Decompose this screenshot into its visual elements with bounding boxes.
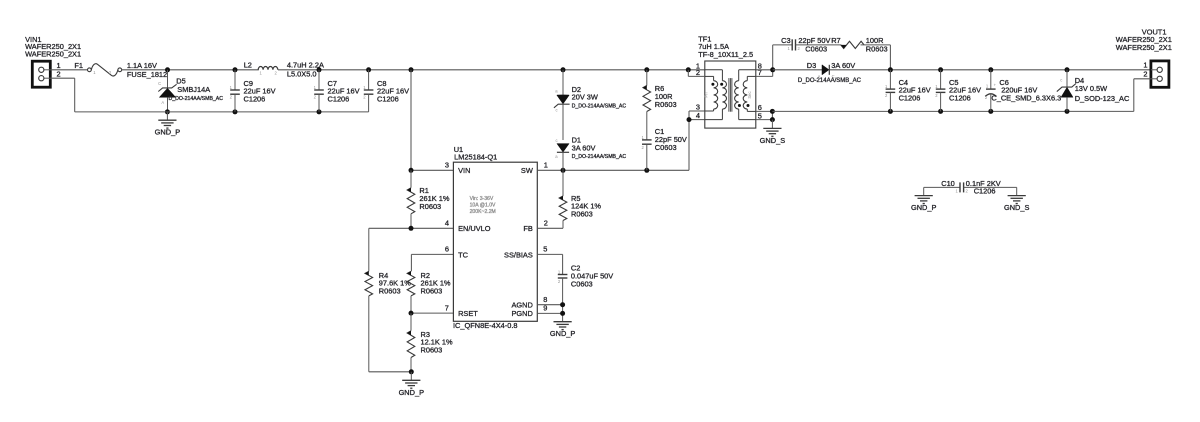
label C5 value — [949, 86, 981, 95]
ground GND_P at D5 — [158, 112, 176, 128]
label C8 — [377, 79, 386, 88]
junction output at C4 — [888, 67, 893, 72]
junction at AGND — [560, 302, 565, 307]
TF1 phase dot secondary outer — [747, 104, 750, 107]
svg-text:c: c — [556, 138, 558, 143]
inductor L2 — [258, 67, 278, 70]
label D5 footprint — [169, 96, 224, 102]
svg-text:C0603: C0603 — [571, 279, 593, 288]
C9 pin1 number — [230, 85, 233, 90]
svg-text:D_DO-214AA/SMB_AC: D_DO-214AA/SMB_AC — [572, 154, 627, 160]
label C4 value — [899, 86, 931, 95]
fuse pin 1 number — [93, 70, 96, 75]
fuse F1 — [88, 64, 122, 76]
svg-text:C1206: C1206 — [949, 94, 971, 103]
diode D3 — [822, 65, 829, 75]
wire R7 to output node — [861, 45, 891, 70]
ground GND_S at TF1 — [763, 120, 781, 137]
label C6 value — [1001, 86, 1037, 95]
label U1 — [454, 145, 463, 154]
TF1 pin number 3 — [696, 103, 700, 112]
label D2 footprint — [572, 104, 627, 110]
label C2 — [571, 264, 580, 273]
label D3 — [807, 61, 816, 70]
label R3 value — [421, 338, 453, 347]
label C1 footprint — [655, 143, 677, 152]
D2 cathode mark — [556, 107, 558, 112]
svg-text:L5.0X5.0: L5.0X5.0 — [287, 69, 317, 78]
junction bottom at D4 — [1065, 109, 1070, 114]
transformer TF1 body — [705, 61, 756, 128]
wire AGND — [537, 304, 562, 306]
C6 plus mark — [994, 83, 997, 88]
label R4 value — [379, 279, 411, 288]
pin number 1 of VIN1 — [57, 61, 61, 70]
label C8 value — [377, 87, 409, 96]
U1 pin number 7 — [445, 303, 449, 312]
C7 pin2 number — [314, 95, 317, 100]
fuse pin 2 number — [109, 70, 112, 75]
label R1 — [419, 186, 428, 195]
svg-text:R0603: R0603 — [421, 287, 443, 296]
connector VIN1 — [32, 61, 50, 87]
D2 anode mark — [555, 89, 558, 94]
wire snubber top — [773, 44, 793, 46]
label L2 footprint — [287, 69, 317, 78]
wire SW — [537, 169, 689, 171]
C4 pin2 number — [885, 93, 888, 98]
junction bottom at C6 — [988, 109, 993, 114]
svg-text:GND_S: GND_S — [760, 136, 786, 145]
diode D2 — [554, 70, 570, 140]
svg-text:PGND: PGND — [511, 309, 532, 318]
svg-text:SS/BIAS: SS/BIAS — [504, 250, 533, 259]
U1 pin number 8 — [543, 295, 547, 304]
capacitor C9 — [230, 70, 240, 112]
ground GND_S at C10 — [1008, 187, 1026, 203]
svg-text:2: 2 — [696, 68, 700, 77]
svg-text:3: 3 — [445, 161, 449, 170]
svg-text:VIN: VIN — [458, 166, 470, 175]
wire C3 to R7 — [796, 44, 842, 46]
wire TF1 pin8 to D3 — [773, 69, 822, 71]
junction at TF pin4 — [687, 117, 692, 122]
svg-text:1: 1 — [57, 61, 61, 70]
label F1 value — [127, 61, 157, 70]
svg-text:C1206: C1206 — [328, 94, 350, 103]
label GND_P at D5 — [155, 128, 181, 137]
svg-text:SW: SW — [521, 166, 533, 175]
label R6 value — [655, 92, 673, 101]
C6 pin1 number — [986, 84, 989, 89]
label C5 — [949, 78, 958, 87]
svg-text:D_DO-214AA/SMB_AC: D_DO-214AA/SMB_AC — [169, 96, 224, 102]
wire PGND — [537, 312, 562, 314]
U1 pin number 9 — [543, 303, 547, 312]
diode D5 — [158, 70, 176, 112]
svg-text:GND_P: GND_P — [550, 329, 576, 338]
svg-text:7: 7 — [445, 303, 449, 312]
TF1 pin number 1 — [696, 61, 700, 70]
label GND_P at C10 — [911, 203, 937, 212]
TF1 primary winding outer — [714, 81, 718, 109]
svg-text:FUSE_1812: FUSE_1812 — [127, 70, 167, 79]
label GND_S at C10 — [1004, 203, 1030, 212]
U1 pin number 2 — [544, 219, 548, 228]
capacitor C8 — [364, 70, 374, 112]
label R2 — [421, 271, 430, 280]
label GND_P at U1 — [550, 329, 576, 338]
svg-text:GND_P: GND_P — [399, 388, 425, 397]
label C7 value — [328, 87, 360, 96]
label GND_S at TF1 — [760, 136, 786, 145]
TF1 secondary winding outer — [743, 81, 747, 109]
junction at EN — [409, 226, 414, 231]
label C2 value — [571, 272, 613, 281]
junction at VIN riser — [409, 67, 414, 72]
U1 pin name EN/UVLO — [458, 224, 491, 233]
label C7 — [328, 79, 337, 88]
label C6 footprint — [991, 94, 1061, 103]
junction at VIN pin — [409, 168, 414, 173]
svg-text:C0603: C0603 — [805, 45, 827, 54]
svg-text:1: 1 — [1143, 61, 1147, 70]
C10 pin1 number — [955, 188, 958, 193]
label D5 value — [177, 85, 210, 94]
svg-text:2: 2 — [544, 219, 548, 228]
svg-text:R0603: R0603 — [866, 45, 888, 54]
svg-text:10A @1.0V: 10A @1.0V — [470, 203, 496, 209]
svg-text:2: 2 — [1143, 70, 1147, 79]
svg-text:R0603: R0603 — [419, 202, 441, 211]
label C10 footprint — [974, 186, 996, 195]
diode D4 — [1057, 70, 1076, 112]
D5 anode mark — [161, 100, 164, 105]
svg-text:IC_QFN8E-4X4-0.8: IC_QFN8E-4X4-0.8 — [453, 321, 518, 330]
label R7 footprint — [866, 45, 888, 54]
svg-text:5: 5 — [543, 245, 547, 254]
D3 cathode mark — [832, 74, 835, 79]
svg-text:LM25184-Q1: LM25184-Q1 — [454, 153, 497, 162]
junction at D5 top — [165, 67, 170, 72]
C6 pin2 number — [985, 95, 988, 100]
label R5 footprint — [571, 210, 593, 219]
diode D1 — [557, 144, 569, 171]
TF1 phase dot primary inner — [720, 83, 723, 86]
L2 pin1 number — [260, 71, 263, 76]
U1 pin name PGND — [511, 309, 532, 318]
label C9 — [244, 79, 253, 88]
C4 pin1 number — [885, 84, 888, 89]
label C4 footprint — [899, 94, 921, 103]
svg-text:R0603: R0603 — [571, 210, 593, 219]
label U1 part — [454, 153, 497, 162]
junction at C9 top — [233, 67, 238, 72]
ground GND_P at R3 — [402, 372, 420, 388]
resistor R7 — [841, 41, 864, 48]
capacitor C10 — [960, 182, 964, 192]
label D2 value — [572, 93, 598, 102]
D1 cathode mark — [556, 138, 558, 143]
svg-text:C: C — [158, 81, 161, 86]
resistor R5 — [559, 170, 567, 228]
junction at R3 ground — [409, 369, 414, 374]
svg-text:FB: FB — [523, 224, 533, 233]
resistor R2 — [407, 271, 415, 313]
capacitor C4 — [886, 70, 896, 112]
label L2 value — [287, 60, 324, 69]
U1 pin name FB — [523, 224, 533, 233]
label R5 — [571, 194, 580, 203]
connector VOUT1 — [1151, 61, 1169, 87]
svg-text:R0603: R0603 — [421, 345, 443, 354]
label R2 value — [421, 279, 451, 288]
label R5 value — [571, 202, 601, 211]
svg-text:C1206: C1206 — [899, 94, 921, 103]
junction at R6 top — [644, 67, 649, 72]
label R4 footprint — [379, 287, 401, 296]
wire VOUT1 pin2 — [1134, 79, 1151, 112]
U1 pin number 4 — [445, 219, 449, 228]
label R3 — [421, 330, 430, 339]
svg-text:13V 0.5W: 13V 0.5W — [1075, 84, 1107, 93]
U1 pin number 5 — [543, 245, 547, 254]
svg-text:GND_P: GND_P — [911, 203, 937, 212]
capacitor C1 — [642, 140, 652, 170]
TF1 core — [729, 78, 732, 112]
wire TF1 pin2 tie — [688, 70, 705, 77]
U1 pin number 6 — [445, 245, 449, 254]
svg-text:F1: F1 — [74, 61, 83, 70]
label D5 — [176, 77, 185, 86]
pin number 1 of VOUT1 — [1143, 61, 1147, 70]
svg-text:20V 3W: 20V 3W — [572, 93, 598, 102]
svg-text:D3: D3 — [807, 61, 816, 70]
svg-text:3A 60V: 3A 60V — [572, 143, 596, 152]
label R1 footprint — [419, 202, 441, 211]
svg-text:C1206: C1206 — [377, 94, 399, 103]
ground GND_P at C10 — [915, 187, 933, 203]
label D4 footprint — [1075, 94, 1130, 103]
wire SW riser to TF pin4 — [689, 111, 705, 170]
C10 pin2 number — [966, 188, 969, 193]
label R1 value — [419, 194, 449, 203]
TF1 pin number 4 — [696, 111, 700, 120]
label C5 footprint — [949, 94, 971, 103]
U1 pin name RSET — [458, 309, 478, 318]
junction SW at D1 — [561, 168, 566, 173]
label C4 — [899, 78, 908, 87]
junction bottom at C5 — [938, 109, 943, 114]
svg-text:D_SOD-123_AC: D_SOD-123_AC — [1075, 94, 1130, 103]
wire TF1 pin8 — [756, 69, 773, 71]
svg-text:6: 6 — [445, 245, 449, 254]
label C9 value — [244, 87, 276, 96]
label C7 footprint — [328, 94, 350, 103]
wire secondary ground rail — [772, 110, 1133, 112]
pin number 2 of VOUT1 — [1143, 70, 1147, 79]
svg-text:TF-8_10X11_2.5: TF-8_10X11_2.5 — [698, 50, 753, 59]
junction at RSET — [409, 311, 414, 316]
label C3 — [781, 36, 790, 45]
junction bottom rail at C7 — [317, 109, 322, 114]
label D1 value — [572, 143, 596, 152]
svg-text:C10: C10 — [941, 179, 955, 188]
U1 pin name VIN — [458, 166, 470, 175]
label F1 footprint — [127, 70, 167, 79]
wire EN/UVLO — [369, 227, 454, 229]
wire D3 to VOUT1 — [829, 69, 1151, 71]
resistor R1 — [407, 170, 415, 228]
svg-text:1: 1 — [544, 161, 548, 170]
resistor R6 — [643, 70, 651, 140]
junction output at D4 — [1065, 67, 1070, 72]
connector VIN1 labels — [25, 35, 81, 59]
svg-text:R7: R7 — [831, 36, 840, 45]
label C2 footprint — [571, 279, 593, 288]
C3 pin2 number — [798, 46, 801, 51]
junction at C7 top — [317, 67, 322, 72]
label TF1 value — [698, 42, 729, 51]
svg-text:C3: C3 — [781, 36, 790, 45]
U1 pin number 3 — [445, 161, 449, 170]
junction SW at C1 — [644, 168, 649, 173]
label TF1 footprint — [698, 50, 753, 59]
label F1 — [74, 61, 83, 70]
junction at D2 top — [561, 67, 566, 72]
TF1 internal stubs — [705, 70, 756, 120]
label C6 — [999, 78, 1008, 87]
junction bottom at C4 — [888, 109, 893, 114]
svg-text:A: A — [161, 100, 164, 105]
svg-text:Sec: Sec — [747, 91, 752, 98]
junction output at C6 — [988, 67, 993, 72]
TF1 phase dot primary outer — [711, 83, 714, 86]
wire VIN1 pin1 to fuse — [50, 69, 87, 71]
C1 pin2 number — [641, 145, 644, 150]
svg-text:SMBJ14A: SMBJ14A — [177, 85, 210, 94]
D3 anode mark — [818, 74, 821, 79]
svg-text:1.1A 16V: 1.1A 16V — [127, 61, 157, 70]
label D3 footprint — [798, 78, 862, 84]
L2 pin2 number — [275, 71, 278, 76]
wire RSET — [411, 312, 453, 314]
pin number 2 of VIN1 — [57, 70, 61, 79]
junction at C8 top — [366, 67, 371, 72]
junction output at C5 — [938, 67, 943, 72]
U1 pin name SW — [521, 166, 533, 175]
label D4 value — [1075, 84, 1107, 93]
U1 pin name TC — [458, 250, 469, 259]
D5 cathode mark — [158, 81, 161, 86]
wire rail down to VIN pin — [411, 70, 453, 171]
D1 anode mark — [555, 154, 558, 159]
TF1 pin number 7 — [758, 68, 762, 77]
capacitor C2 — [558, 275, 568, 322]
label C3 value — [798, 36, 830, 45]
label R6 — [655, 84, 664, 93]
TF1 winding name Pri — [704, 92, 709, 97]
op-amp U1 body — [453, 162, 537, 321]
wire FB — [537, 227, 563, 229]
U1 pin name SS/BIAS — [504, 250, 533, 259]
connector VOUT1 labels — [1116, 27, 1172, 51]
label D1 footprint — [572, 154, 627, 160]
label TF1 — [698, 35, 711, 44]
junction at TF1 pin1 — [686, 67, 691, 72]
wire TC — [411, 254, 453, 271]
svg-text:GND_S: GND_S — [1004, 203, 1030, 212]
svg-text:C_CE_SMD_6.3X6.3: C_CE_SMD_6.3X6.3 — [991, 94, 1061, 103]
svg-text:c: c — [556, 107, 558, 112]
capacitor C3 — [792, 39, 795, 50]
label GND_P at R3 — [399, 388, 425, 397]
junction at PGND — [560, 311, 565, 316]
svg-text:EN/UVLO: EN/UVLO — [458, 224, 491, 233]
label C3 footprint — [805, 45, 827, 54]
label C8 footprint — [377, 94, 399, 103]
svg-text:7: 7 — [758, 68, 762, 77]
C8 pin1 number — [363, 85, 366, 90]
label R3 footprint — [421, 345, 443, 354]
label C9 footprint — [244, 94, 266, 103]
svg-text:4: 4 — [445, 219, 449, 228]
svg-text:TC: TC — [458, 250, 469, 259]
svg-text:D_DO-214AA/SMB_AC: D_DO-214AA/SMB_AC — [572, 104, 627, 110]
U1 pin name AGND — [511, 301, 532, 310]
junction at TF1 pin8 — [770, 67, 775, 72]
C8 pin2 number — [363, 95, 366, 100]
svg-text:D_DO-214AA/SMB_AC: D_DO-214AA/SMB_AC — [798, 78, 862, 84]
TF1 pin number 6 — [758, 103, 762, 112]
svg-text:C1206: C1206 — [244, 94, 266, 103]
label R7 value — [866, 36, 884, 45]
svg-text:4: 4 — [696, 111, 700, 120]
label D3 value — [831, 61, 855, 70]
svg-text:GND_P: GND_P — [155, 128, 181, 137]
label R7 — [831, 36, 840, 45]
junction bottom rail at C9 — [233, 109, 238, 114]
svg-text:WAFER250_2X1: WAFER250_2X1 — [1116, 43, 1172, 52]
TF1 pin number 8 — [758, 61, 762, 70]
TF1 pin number 2 — [696, 68, 700, 77]
TF1 winding name Sec — [747, 91, 752, 98]
C2 pin1 number — [558, 270, 561, 275]
ground GND_P at U1 — [554, 322, 572, 330]
wire L2 to TF1 pin1 — [278, 69, 705, 71]
svg-text:2: 2 — [57, 70, 61, 79]
label R6 footprint — [655, 100, 677, 109]
C9 pin2 number — [230, 95, 233, 100]
C5 pin1 number — [935, 84, 938, 89]
svg-text:Pri: Pri — [704, 92, 709, 97]
svg-text:200K~2.2M: 200K~2.2M — [470, 209, 496, 215]
wire GND_P to C10 — [924, 186, 960, 188]
label C1 — [655, 127, 664, 136]
label C10 — [941, 179, 955, 188]
C7 pin1 number — [314, 85, 317, 90]
wire R4 bottom to R3 bottom — [369, 371, 411, 373]
TF1 phase dot secondary inner — [738, 104, 741, 107]
wire TF1 pin5 tie — [756, 111, 773, 120]
label U1 footprint — [453, 321, 518, 330]
svg-text:c: c — [1060, 77, 1062, 82]
capacitor C5 — [936, 70, 946, 112]
C3 pin1 number — [788, 46, 791, 51]
junction at D5 bottom — [165, 109, 170, 114]
wire TF1 pin7 tie — [756, 45, 773, 77]
label R4 — [379, 271, 388, 280]
